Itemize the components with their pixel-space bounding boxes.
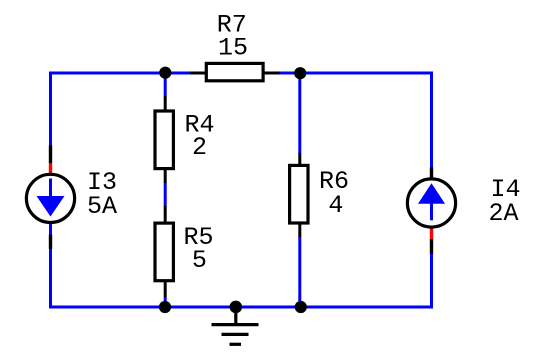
- node: junction dot top-left (node 2): [159, 67, 171, 79]
- node: junction dot bottom-left (ground net): [159, 301, 171, 313]
- wire: R5 to bottom rail: [164, 297, 167, 308]
- node: junction dot ground stem: [230, 301, 243, 314]
- wire: top rail left segment (node 1 to R7 left lead): [49, 72, 190, 147]
- current source I4 (2A), right branch, arrow up: [407, 168, 455, 255]
- svg-text:5A: 5A: [87, 192, 117, 221]
- svg-text:15: 15: [218, 34, 248, 63]
- wire: right branch lower (I4 to bottom rail): [430, 254, 433, 309]
- wire: middle-left branch, junction to R4: [164, 73, 167, 97]
- wire: R6 to bottom rail: [298, 237, 301, 308]
- resistor R7 (15 Ohm), horizontal, top rail: [190, 63, 280, 80]
- svg-text:4: 4: [328, 191, 343, 220]
- svg-text:5: 5: [192, 246, 207, 275]
- resistor R5 (5 Ohm), vertical, middle-left branch: [155, 206, 173, 297]
- ground symbol: [212, 307, 259, 344]
- wire: left branch lower (I3 to bottom rail): [49, 249, 52, 309]
- svg-text:2: 2: [192, 133, 207, 162]
- wire: top rail right segment (R7 right lead to right corner): [280, 72, 433, 169]
- resistor R4 (2 Ohm), vertical, middle-left branch: [155, 96, 173, 183]
- current source I3 (5A), left branch, arrow down: [26, 146, 74, 250]
- wire: bottom rail (ground net): [49, 306, 433, 309]
- wire: between R4 and R5: [164, 183, 167, 207]
- resistor R6 (4 Ohm), vertical, middle-right branch: [290, 153, 308, 237]
- wire: middle-right branch, junction to R6: [298, 73, 301, 154]
- node: junction dot bottom-right (ground net): [295, 301, 307, 313]
- node: junction dot top-right (node 3): [294, 67, 306, 79]
- svg-text:2A: 2A: [489, 199, 519, 228]
